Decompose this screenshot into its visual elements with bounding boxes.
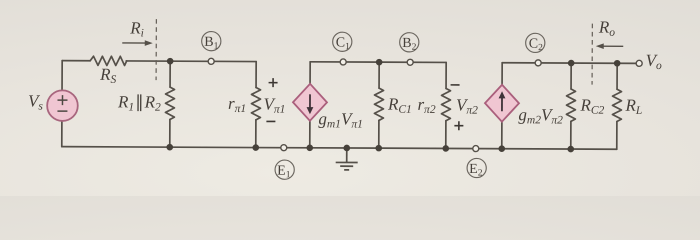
polarity minus of Vpi2: [451, 84, 460, 86]
junction ground tap: [343, 145, 350, 152]
input-resistance Ri dashed cut line: [155, 19, 157, 80]
junction source2 bottom: [498, 145, 505, 152]
junction R1R2 bottom: [166, 144, 173, 151]
svg-text:R1∥R2: R1∥R2: [117, 92, 161, 113]
resistor rpi2: [441, 62, 450, 148]
voltage source VS: [47, 90, 78, 121]
wire dependent source 1 bottom lead: [309, 121, 311, 148]
polarity minus of Vpi1: [266, 120, 275, 122]
svg-text:RS: RS: [99, 65, 116, 86]
svg-text:gm1Vπ1: gm1Vπ1: [318, 109, 363, 130]
junction source1 bottom: [306, 144, 313, 151]
resistor RC2: [566, 63, 575, 149]
svg-text:E2: E2: [469, 162, 483, 179]
svg-text:Ro: Ro: [598, 18, 615, 39]
resistor RS zigzag: [90, 56, 127, 65]
terminal node C2: [535, 60, 541, 66]
ground: [336, 148, 358, 170]
svg-text:Vπ2: Vπ2: [456, 95, 478, 116]
wire dependent source 2 bottom lead: [501, 122, 503, 149]
wire left column below source VS: [61, 121, 63, 147]
junction RC2 bottom: [567, 146, 574, 153]
node label C2: [526, 33, 545, 53]
svg-text:Ri: Ri: [129, 18, 144, 39]
junction rpi2 bottom: [442, 145, 449, 152]
junction RC1 bottom: [375, 145, 382, 152]
junction R1R2 top: [167, 58, 174, 65]
junction RC1 top: [376, 59, 383, 66]
junction RL top: [614, 60, 621, 67]
node label B2: [400, 33, 419, 53]
resistor RC1: [374, 62, 383, 148]
resistor R1 parallel R2: [165, 61, 174, 147]
node label C1: [333, 32, 352, 52]
svg-text:E1: E1: [277, 164, 291, 181]
junction RC2 top: [568, 60, 575, 67]
svg-text:B2: B2: [402, 36, 416, 53]
terminal node C1: [340, 59, 346, 65]
junction rpi1 bottom: [252, 144, 259, 151]
wire top rail stage 1: RS to rpi1 through node B1: [126, 60, 256, 63]
svg-text:gm2Vπ2: gm2Vπ2: [518, 105, 563, 126]
Ri reference arrow: [122, 40, 153, 46]
output-resistance Ro dashed cut line: [591, 24, 593, 85]
svg-text:RC1: RC1: [387, 95, 412, 116]
svg-text:Vs: Vs: [28, 91, 43, 112]
svg-text:rπ2: rπ2: [417, 95, 435, 116]
wire dependent source 1 top lead: [309, 62, 311, 84]
terminal node B2: [407, 59, 413, 65]
svg-text:Vo: Vo: [646, 51, 662, 72]
polarity plus of Vpi2: [454, 121, 463, 130]
svg-text:RC2: RC2: [579, 96, 604, 117]
terminal node E1: [281, 145, 287, 151]
wire dependent source 2 top lead: [501, 63, 503, 85]
wire top rail stage 3 (C2 output net to Vo): [502, 62, 637, 65]
svg-text:Vπ1: Vπ1: [263, 95, 285, 116]
svg-text:RL: RL: [624, 96, 642, 117]
svg-text:C2: C2: [529, 37, 543, 54]
polarity plus of Vpi1: [269, 78, 278, 87]
svg-text:rπ1: rπ1: [228, 94, 246, 115]
wire top rail stage 1: Vs corner to RS: [62, 60, 90, 62]
Ro reference arrow: [596, 43, 624, 49]
wire left column above source VS: [61, 61, 63, 91]
node label B1: [202, 32, 221, 52]
dependent current source gm2*Vpi2: [485, 85, 519, 122]
svg-text:B1: B1: [204, 35, 218, 52]
resistor RL: [612, 63, 621, 149]
terminal Vo output: [636, 60, 642, 66]
node label E2: [467, 158, 486, 178]
dependent current source gm1*Vpi1: [293, 84, 327, 121]
resistor rpi1: [251, 62, 260, 148]
wire bottom rail (common/ground net): [62, 147, 617, 150]
svg-text:C1: C1: [336, 36, 350, 53]
terminal node E2: [473, 146, 479, 152]
node label E1: [275, 160, 294, 180]
terminal node B1: [208, 58, 214, 64]
wire top rail stage 2 (C1/B2 net): [310, 61, 446, 64]
